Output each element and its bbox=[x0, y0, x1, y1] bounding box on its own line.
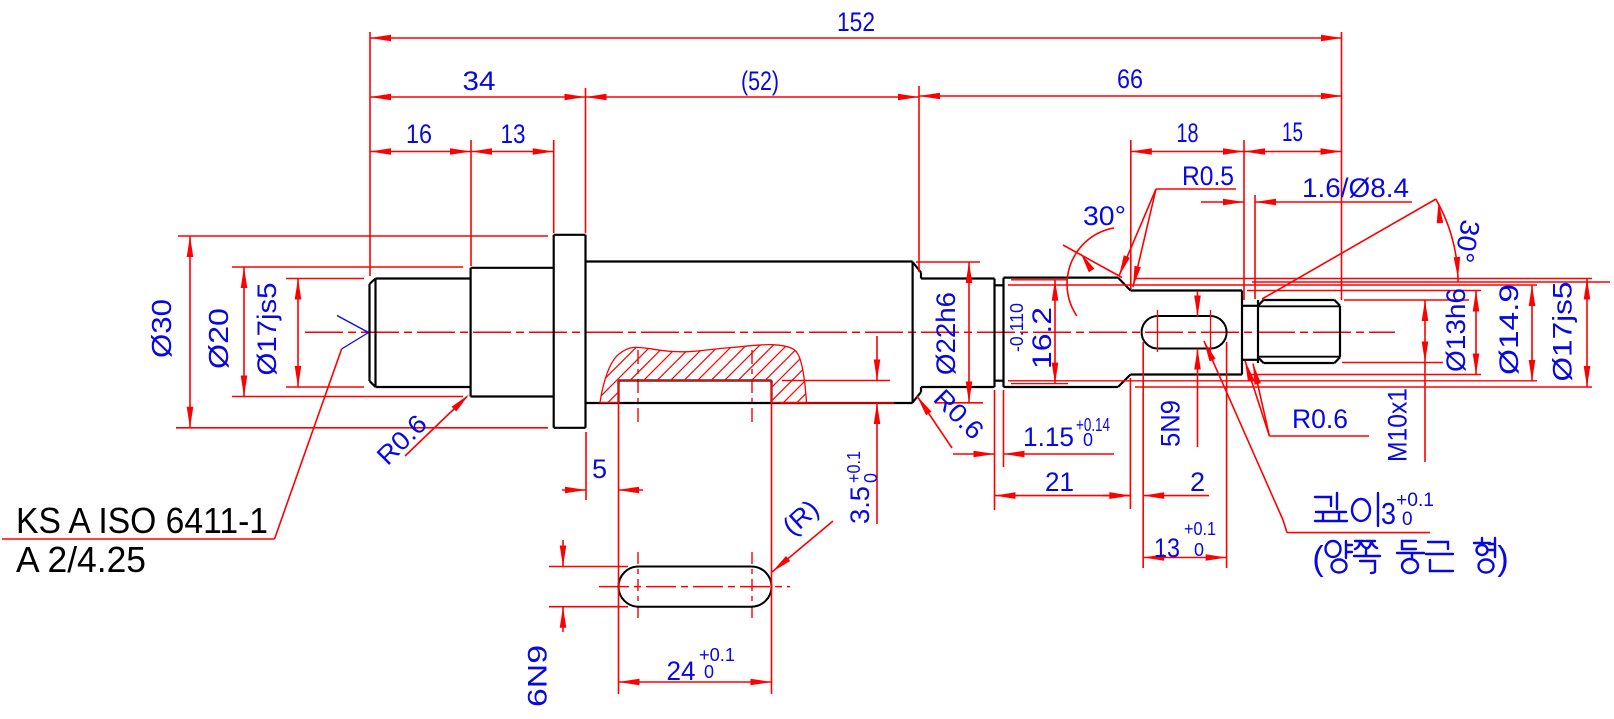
svg-text:Ø30: Ø30 bbox=[146, 299, 177, 358]
section hatch boundary and hatch lines bbox=[560, 335, 892, 410]
svg-text:): ) bbox=[1497, 540, 1508, 578]
label A 2/4.25 bbox=[16, 539, 146, 580]
dimension 2 bbox=[1103, 467, 1209, 499]
svg-text:0: 0 bbox=[861, 473, 881, 483]
svg-text:R0.6: R0.6 bbox=[371, 409, 433, 471]
extension lines left diameters bbox=[176, 236, 548, 428]
svg-text:3.5: 3.5 bbox=[845, 486, 875, 524]
keyway slot bottom view bbox=[619, 567, 772, 607]
note (rounded both ends) (Korean) bbox=[1312, 538, 1508, 578]
slot C center ticks bbox=[1158, 310, 1211, 352]
svg-text:Ø20: Ø20 bbox=[203, 308, 234, 369]
dimension 13 bbox=[471, 119, 554, 155]
dimension 6N9 keyway width bottom view bbox=[523, 540, 567, 707]
dimension 24 +0.1/0 keyway length bbox=[619, 645, 772, 686]
extension lines vertical top bbox=[370, 32, 1342, 300]
dimension 18 bbox=[1131, 118, 1244, 155]
svg-text:1.15: 1.15 bbox=[1023, 422, 1074, 452]
dimension dia13h6 bbox=[1441, 288, 1479, 375]
dimension 21 bbox=[995, 467, 1131, 499]
dimension 1.15 +0.14/0 ring groove width bbox=[953, 415, 1114, 457]
label KS A ISO 6411-1 bbox=[16, 500, 268, 541]
angle 30deg left chamfer bbox=[1063, 201, 1126, 316]
dimension 16 bbox=[370, 119, 471, 155]
leader keyway depth note bbox=[1204, 341, 1430, 533]
svg-text:0: 0 bbox=[1007, 303, 1027, 313]
dimension dia14.9 bbox=[1494, 284, 1535, 381]
shaft outline bbox=[370, 235, 1341, 428]
svg-text:0: 0 bbox=[1083, 430, 1093, 450]
svg-text:15: 15 bbox=[1282, 117, 1303, 147]
centerline bottom keyway view bbox=[599, 586, 790, 588]
svg-text:R0.6: R0.6 bbox=[1292, 404, 1348, 434]
dimension dia22h6 bbox=[931, 262, 972, 403]
keyway slot 5N9 on section C bbox=[1142, 316, 1227, 349]
leader R0.5 chamfer fillets bbox=[1119, 161, 1236, 287]
svg-text:34: 34 bbox=[463, 66, 496, 96]
svg-text:Ø17js5: Ø17js5 bbox=[252, 283, 282, 376]
svg-text:16.2: 16.2 bbox=[1027, 307, 1057, 369]
svg-text:Ø17js5: Ø17js5 bbox=[1548, 282, 1578, 382]
svg-text:5: 5 bbox=[592, 454, 607, 484]
svg-text:5N9: 5N9 bbox=[1156, 400, 1186, 447]
centerline keyway arc center left (side view) bbox=[637, 350, 639, 427]
svg-text:13: 13 bbox=[501, 119, 526, 149]
svg-text:A 2/4.25: A 2/4.25 bbox=[16, 539, 146, 580]
dimension M10x1 thread bbox=[1383, 300, 1429, 462]
dimension 16.2 0/-0.11 bbox=[1007, 280, 1058, 384]
centerline keyway arc center left (bottom view) bbox=[637, 552, 639, 622]
dimension dia17js5 left bbox=[252, 279, 301, 388]
svg-text:30°: 30° bbox=[1448, 217, 1485, 265]
svg-text:R0.5: R0.5 bbox=[1182, 161, 1234, 191]
dimension 3.5 +0.1/0 keyway depth bbox=[844, 336, 881, 524]
centerline keyway arc center right (bottom view) bbox=[751, 552, 753, 622]
extension lines keyway and grooves bbox=[549, 342, 1227, 694]
dimension (52) bbox=[586, 66, 920, 100]
dimension 15 bbox=[1244, 117, 1342, 155]
centerline keyway arc center right (side view) bbox=[751, 350, 753, 427]
svg-text:16: 16 bbox=[406, 119, 432, 149]
svg-text:M10x1: M10x1 bbox=[1383, 388, 1413, 462]
svg-text:Ø22h6: Ø22h6 bbox=[931, 292, 961, 375]
svg-text:66: 66 bbox=[1117, 64, 1143, 94]
dimension 66 bbox=[919, 64, 1342, 99]
leader R0.6 thread neck fillets bbox=[1245, 361, 1369, 436]
note depth 3 +0.1/0 (Korean) bbox=[1315, 490, 1434, 531]
svg-text:0: 0 bbox=[1402, 509, 1413, 530]
leader KS center hole with blue chevron bbox=[2, 316, 369, 540]
svg-text:+0.1: +0.1 bbox=[1396, 490, 1434, 511]
svg-text:18: 18 bbox=[1177, 118, 1199, 148]
leader R0.6 left step fillet bbox=[371, 395, 469, 471]
dimension 5 bbox=[562, 454, 643, 493]
dimension dia20 bbox=[203, 267, 247, 397]
dimension 1.6/dia8.4 thread relief groove bbox=[1201, 173, 1412, 205]
svg-text:-0.11: -0.11 bbox=[1007, 313, 1027, 352]
angle 30deg right thread chamfer bbox=[1262, 199, 1485, 299]
svg-text:0: 0 bbox=[704, 662, 714, 682]
dimension 5N9 keyway width bbox=[1156, 291, 1201, 447]
svg-text:24: 24 bbox=[667, 656, 696, 686]
svg-text:3: 3 bbox=[1381, 496, 1396, 531]
centerline shaft axis bbox=[305, 331, 1395, 333]
svg-text:13: 13 bbox=[1154, 533, 1180, 563]
svg-text:KS A ISO 6411-1: KS A ISO 6411-1 bbox=[16, 500, 268, 541]
dimension 13 +0.1/0 slot length bbox=[1143, 519, 1226, 563]
dimension 152 bbox=[370, 7, 1342, 41]
svg-text:Ø13h6: Ø13h6 bbox=[1441, 288, 1471, 372]
dimension 34 bbox=[370, 66, 586, 100]
svg-text:Ø14.9: Ø14.9 bbox=[1494, 284, 1524, 375]
leader (R) slot end radius bbox=[772, 493, 833, 572]
svg-text:(52): (52) bbox=[741, 66, 779, 96]
dimension dia17js5 right bbox=[1548, 279, 1591, 388]
svg-text:21: 21 bbox=[1045, 467, 1074, 497]
svg-text:2: 2 bbox=[1190, 467, 1205, 497]
leader R0.6 shoulder fillet middle bbox=[917, 383, 990, 448]
svg-text:6N9: 6N9 bbox=[523, 645, 553, 707]
svg-text:0: 0 bbox=[1194, 540, 1204, 560]
svg-text:(: ( bbox=[1312, 540, 1324, 578]
svg-text:30°: 30° bbox=[1083, 201, 1126, 231]
keyway slot side view bbox=[619, 381, 772, 404]
extension lines right diameters bbox=[916, 262, 1610, 403]
svg-text:1.6/Ø8.4: 1.6/Ø8.4 bbox=[1302, 173, 1409, 203]
svg-text:R0.6: R0.6 bbox=[928, 383, 990, 445]
svg-text:+0.1: +0.1 bbox=[1184, 519, 1216, 539]
svg-text:152: 152 bbox=[837, 7, 875, 37]
dimension dia30 bbox=[146, 236, 193, 428]
